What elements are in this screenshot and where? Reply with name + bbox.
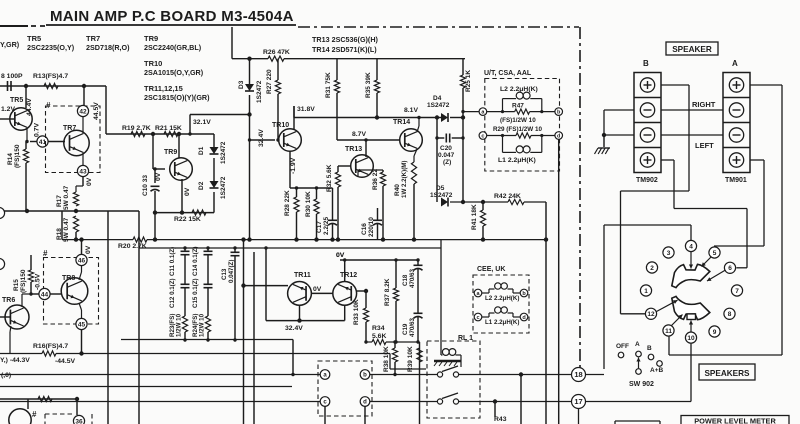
- svg-text:Y,GR): Y,GR): [0, 40, 20, 49]
- resistor R21: [164, 131, 178, 136]
- resistor R37: [393, 288, 398, 301]
- svg-text:R47: R47: [512, 103, 524, 110]
- top dash-dot board boundary: [298, 26, 579, 28]
- switch contact 1: [640, 285, 651, 296]
- label SPEAKER box: [666, 42, 718, 55]
- svg-text:R15: R15: [13, 279, 20, 291]
- svg-text:470/63: 470/63: [409, 269, 416, 288]
- second rail y248: [139, 247, 441, 249]
- relay contact 1: [437, 372, 442, 377]
- wire to D3: [249, 59, 251, 84]
- wire from rail to emitter line: [265, 248, 267, 321]
- pin 36 (cut): [73, 415, 84, 424]
- svg-text:SW 902: SW 902: [629, 381, 654, 388]
- wire below node c: [324, 406, 326, 424]
- svg-text:R19 2.7K: R19 2.7K: [122, 125, 151, 132]
- svg-text:R37 8.2K: R37 8.2K: [384, 278, 391, 306]
- wire A plus bottom to contact 5: [750, 159, 764, 161]
- svg-text:5W 0.47: 5W 0.47: [63, 217, 70, 242]
- transistor bottom (cut): [9, 409, 31, 424]
- wire D4/C20 left leg: [436, 118, 438, 203]
- svg-text:(FS)150: (FS)150: [14, 144, 21, 168]
- long wire vertical x243: [243, 240, 245, 424]
- svg-text:C14 0.1(Z): C14 0.1(Z): [192, 246, 199, 276]
- svg-text:RIGHT: RIGHT: [692, 100, 716, 109]
- svg-text:R25 1K: R25 1K: [465, 70, 472, 92]
- position dot A: [636, 351, 642, 357]
- capacitor C19: [414, 313, 423, 318]
- wire to pin 36: [76, 399, 78, 415]
- junction R19/R21 to TR9 base: [151, 132, 155, 136]
- resistor R18: [73, 216, 78, 232]
- svg-text:L1 2.2μH(K): L1 2.2μH(K): [485, 319, 519, 326]
- dashed box U/T CSA AAL: [485, 79, 560, 172]
- resistor R31: [334, 80, 339, 93]
- svg-text:45: 45: [78, 321, 86, 328]
- svg-text:R30 10K: R30 10K: [305, 191, 312, 217]
- wire TR13 base: [338, 165, 351, 167]
- svg-text:TR10: TR10: [272, 122, 289, 129]
- svg-text:A+B: A+B: [650, 367, 663, 374]
- svg-text:1/2W 10: 1/2W 10: [176, 313, 183, 337]
- wire coil to contact: [458, 354, 461, 356]
- diode D2: [210, 181, 219, 188]
- svg-text:R29 (FS)1/2W 10: R29 (FS)1/2W 10: [493, 126, 542, 133]
- svg-text:6: 6: [728, 265, 732, 272]
- resistor R40: [411, 162, 416, 184]
- wire LEFT channel: [661, 134, 723, 136]
- switch contact 7: [731, 285, 742, 296]
- wire contact 10 to pin 17: [690, 344, 692, 402]
- title underline and top border line: [0, 25, 28, 27]
- node b CEE: [520, 289, 528, 297]
- svg-text:D5: D5: [436, 185, 445, 192]
- resistor R38: [392, 348, 397, 362]
- wire TR9 base: [153, 168, 165, 170]
- junction TR11 base feed: [241, 283, 245, 287]
- svg-text:1S2472: 1S2472: [427, 102, 450, 109]
- pin 45: [76, 318, 87, 329]
- svg-text:32.4V: 32.4V: [285, 325, 303, 332]
- inductor L1 UT: [502, 136, 504, 153]
- wire C10 top: [154, 169, 156, 183]
- svg-text:0.047(Z): 0.047(Z): [228, 260, 235, 283]
- arrow contact 11 to rotor: [672, 315, 683, 326]
- wire rail corner down to bus: [61, 211, 63, 240]
- svg-text:CEE, UK: CEE, UK: [477, 266, 505, 273]
- resistor R28: [294, 197, 299, 212]
- svg-text:C16: C16: [361, 223, 368, 235]
- svg-text:8.7V: 8.7V: [352, 131, 366, 138]
- svg-text:C11 0.1(Z): C11 0.1(Z): [169, 247, 176, 276]
- wire corner to R17: [76, 185, 83, 187]
- wire C14 column: [207, 248, 209, 251]
- resistor R27: [275, 80, 280, 94]
- svg-text:R13(FS)4.7: R13(FS)4.7: [33, 73, 68, 80]
- capacitor C10: [151, 186, 160, 191]
- output line to R42: [450, 201, 508, 203]
- svg-text:0V: 0V: [86, 177, 93, 186]
- position dot OFF: [618, 352, 624, 358]
- wire corner y339 to y374: [292, 340, 294, 375]
- wire top rail left: [0, 85, 106, 87]
- wire R22 line: [155, 212, 214, 214]
- junction D3 line / 32.1V line: [247, 112, 251, 116]
- wire TR6 base from edge: [0, 316, 11, 318]
- left edge connector pin (cut): [0, 207, 5, 218]
- wire rail down to R19 line: [105, 86, 107, 134]
- node d lower: [360, 397, 370, 407]
- wire down to 0V bus: [154, 213, 156, 240]
- svg-text:2SD718(R,O): 2SD718(R,O): [86, 43, 130, 52]
- svg-text:c: c: [476, 315, 479, 321]
- svg-text:7: 7: [735, 288, 739, 295]
- wire pin 46 up to bus: [81, 240, 83, 255]
- wire R35 down: [376, 93, 378, 118]
- svg-text:32.1V: 32.1V: [193, 119, 211, 126]
- node a UT: [479, 108, 487, 116]
- svg-text:TR6: TR6: [2, 297, 15, 304]
- resistor R42: [508, 199, 524, 204]
- svg-text:C20: C20: [440, 145, 452, 152]
- wire output line to D4: [294, 117, 441, 119]
- svg-text:TR11,12,15: TR11,12,15: [144, 84, 183, 93]
- wire 0V line TR12: [340, 259, 418, 261]
- wire R18 to 0V bus: [75, 232, 77, 240]
- svg-text:(,0): (,0): [1, 372, 11, 379]
- svg-text:1.2V: 1.2V: [1, 106, 15, 113]
- switch contact 9: [709, 326, 720, 337]
- top mid rail: [232, 58, 268, 60]
- svg-text:R41 18K: R41 18K: [471, 204, 478, 230]
- transistor TR9: [170, 158, 193, 181]
- svg-text:SPEAKER: SPEAKER: [672, 45, 712, 54]
- wire TR14 emitter up: [417, 126, 419, 132]
- capacitor C13: [231, 252, 240, 255]
- switch rotor upper: [672, 264, 710, 287]
- svg-text:R35 39K: R35 39K: [365, 72, 372, 98]
- capacitor C11: [181, 251, 190, 254]
- relay core bar: [434, 360, 461, 362]
- node d CEE: [520, 313, 528, 321]
- wire TR12 collector out: [357, 290, 366, 292]
- wire bottom stage rail: [0, 398, 77, 400]
- svg-text:C15 0.1(Z): C15 0.1(Z): [192, 278, 199, 308]
- switch rotor lower: [672, 296, 710, 319]
- diode D4: [441, 113, 448, 122]
- svg-text:D3: D3: [238, 80, 245, 89]
- svg-text:SPEAKERS: SPEAKERS: [704, 369, 750, 378]
- transistor TR6: [5, 305, 29, 329]
- wire RIGHT channel: [661, 109, 723, 111]
- capacitor C8 (partial) plates: [7, 81, 9, 91]
- svg-text:C18: C18: [402, 274, 409, 286]
- label box bottom (partial): [615, 420, 660, 422]
- svg-text:C13: C13: [221, 268, 228, 280]
- svg-text:D1: D1: [198, 146, 205, 155]
- svg-text:32.4V: 32.4V: [258, 129, 265, 147]
- dashed box CEE UK: [473, 275, 529, 333]
- svg-text:-44.5V: -44.5V: [55, 358, 75, 365]
- wire B plus bottom to contact 6: [661, 159, 674, 161]
- wire TR5 base from edge: [0, 118, 15, 120]
- switch contact 11: [663, 325, 674, 336]
- svg-text:(FS)1/2W 10: (FS)1/2W 10: [500, 117, 536, 124]
- switch contact 6: [724, 262, 735, 273]
- wire TR10 base feed: [250, 139, 276, 141]
- svg-text:C12 0.1(Z): C12 0.1(Z): [169, 278, 176, 308]
- svg-text:TR14 2SD571(K)(L): TR14 2SD571(K)(L): [312, 45, 377, 54]
- svg-text:42: 42: [79, 108, 87, 115]
- wire to D1: [213, 134, 215, 147]
- switch contact 4: [685, 240, 696, 251]
- wire B plus top to contact 12: [661, 84, 689, 86]
- svg-text:R27 220: R27 220: [266, 69, 273, 94]
- svg-text:1W 2.2(K)(M): 1W 2.2(K)(M): [401, 161, 408, 198]
- wire TR9 emitter down: [181, 179, 183, 213]
- resistor R29: [516, 133, 531, 138]
- svg-text:-0.5V: -0.5V: [35, 273, 42, 290]
- svg-text:B: B: [647, 345, 652, 352]
- node c UT: [479, 132, 487, 140]
- svg-text:(FS)150: (FS)150: [20, 269, 27, 293]
- wire output to node a: [463, 111, 479, 113]
- svg-text:L2 2.2μH(K): L2 2.2μH(K): [485, 295, 519, 302]
- svg-text:TR10: TR10: [144, 59, 162, 68]
- svg-text:U/T, CSA, AAL: U/T, CSA, AAL: [484, 70, 532, 77]
- wire TR9 collector up: [178, 134, 180, 158]
- svg-text:(Z): (Z): [443, 159, 451, 166]
- resistor R30: [314, 199, 319, 214]
- svg-text:C10 33: C10 33: [142, 175, 149, 196]
- wire D2 to R22: [213, 192, 215, 213]
- wire pin 44 to TR8 base: [51, 293, 62, 295]
- arrow contact 12 to rotor: [657, 300, 678, 311]
- capacitor C18: [414, 265, 423, 270]
- svg-text:470/63: 470/63: [409, 318, 416, 337]
- node a CEE: [474, 289, 482, 297]
- svg-text:1S2472: 1S2472: [220, 176, 227, 199]
- wire TR7 collector to pin 42: [82, 117, 84, 133]
- position dot B: [648, 354, 654, 360]
- svg-text:b: b: [363, 373, 367, 379]
- switch contact 10: [685, 332, 696, 343]
- svg-text:B: B: [643, 59, 649, 68]
- wire pin 43 down: [82, 177, 84, 186]
- svg-text:OFF: OFF: [616, 343, 629, 350]
- wire D1-D2: [213, 158, 215, 181]
- svg-text:MAIN AMP P.C BOARD M3-4504A: MAIN AMP P.C BOARD M3-4504A: [50, 8, 294, 25]
- svg-text:31.8V: 31.8V: [297, 106, 315, 113]
- wire C13 column: [234, 248, 236, 252]
- svg-text:1S2472: 1S2472: [430, 192, 453, 199]
- transistor TR11: [288, 282, 312, 306]
- long wire output vertical x546: [545, 202, 547, 424]
- terminal block TM902 (B): [634, 73, 661, 173]
- diode D5: [441, 198, 448, 207]
- svg-text:0V: 0V: [336, 252, 345, 259]
- wire TR8 collector to pin 46: [79, 272, 82, 280]
- wire relay contact 2 to pin 17: [459, 401, 572, 403]
- rotor position dot: [636, 369, 642, 375]
- wire mid rail left: [0, 210, 139, 212]
- svg-text:1/2W 10: 1/2W 10: [199, 313, 206, 337]
- wire TR14 collector down: [414, 149, 417, 156]
- wire TR10 collector up: [293, 106, 295, 130]
- svg-text:TR5: TR5: [27, 34, 41, 43]
- resistor R25: [460, 75, 465, 88]
- junction top rail / pin 42 branch: [82, 84, 86, 88]
- wire TR9 base divider: [152, 134, 154, 169]
- wire TR11 base feed: [244, 285, 289, 287]
- svg-text:C17: C17: [316, 221, 323, 233]
- svg-text:TR9: TR9: [164, 149, 177, 156]
- resistor R41: [480, 210, 485, 226]
- svg-text:TR8: TR8: [62, 275, 75, 282]
- svg-text:8 100P: 8 100P: [1, 73, 23, 80]
- long wire vertical x419: [419, 342, 421, 424]
- svg-text:0.047: 0.047: [438, 152, 455, 159]
- svg-text:43: 43: [79, 168, 87, 175]
- wire R25 down: [462, 88, 464, 202]
- wire TR8 emitter to pin 45: [79, 303, 82, 310]
- wire TR5 collector up: [25, 86, 27, 108]
- resistor R47: [515, 109, 530, 114]
- svg-text:TR5: TR5: [10, 97, 23, 104]
- bus wire y401 (to relay and pin 17): [0, 401, 320, 403]
- svg-text:5W 0.47: 5W 0.47: [63, 185, 70, 210]
- wire 32.1V corner: [189, 115, 191, 135]
- 0V bus rail: [62, 239, 133, 241]
- switch contact 5: [709, 247, 720, 258]
- svg-text:R34: R34: [372, 325, 385, 332]
- svg-text:9: 9: [713, 329, 717, 336]
- svg-text:2SC1815(O)(Y)(GR): 2SC1815(O)(Y)(GR): [144, 93, 210, 102]
- svg-text:d: d: [363, 400, 367, 406]
- svg-text:D4: D4: [433, 95, 442, 102]
- junction ground: [602, 133, 606, 137]
- pin 44: [39, 288, 50, 299]
- wire emitter node: [290, 187, 333, 189]
- junction to R43: [519, 372, 523, 376]
- transistor TR7: [64, 130, 89, 155]
- arrow contact 5 to rotor: [702, 257, 712, 267]
- label SPEAKERS box: [699, 364, 755, 380]
- transistor TR13: [351, 155, 374, 178]
- wire bottom transistor collector: [27, 399, 29, 409]
- svg-text:R16(FS)4.7: R16(FS)4.7: [33, 343, 68, 350]
- wire A plus top to contact 11: [750, 84, 782, 86]
- svg-text:2SC2235(O,Y): 2SC2235(O,Y): [27, 43, 75, 52]
- pin 43: [77, 165, 88, 176]
- svg-text:2SA1015(O,Y,GR): 2SA1015(O,Y,GR): [144, 68, 204, 77]
- capacitor C17: [328, 220, 337, 225]
- transistor TR10: [279, 129, 302, 152]
- long wire vertical x139: [138, 211, 140, 424]
- resistor bottom stage: [38, 396, 52, 401]
- diode D1: [210, 147, 219, 154]
- svg-text:TR12: TR12: [340, 272, 357, 279]
- transistor TR14: [400, 129, 423, 152]
- svg-text:0V: 0V: [313, 286, 322, 293]
- bus wire y339: [121, 339, 293, 341]
- dashed box relay RL1: [427, 341, 480, 418]
- wire c to d row with resistor R29: [487, 135, 516, 137]
- wire B minus terminals to ground: [604, 109, 634, 111]
- resistor R24(FS): [205, 316, 210, 332]
- wire down from junction x495: [494, 402, 496, 418]
- wire R27 to TR10 base: [277, 94, 279, 140]
- transistor TR12: [333, 282, 357, 306]
- junction TR12 collector / R33: [364, 289, 368, 293]
- svg-text:R42 24K: R42 24K: [494, 193, 521, 200]
- long wire vertical x254: [253, 252, 255, 424]
- wire R19/R21 line: [106, 133, 214, 135]
- wire down from junction x521: [520, 375, 522, 424]
- svg-text:A: A: [732, 59, 738, 68]
- wire TR11 to TR12: [311, 292, 333, 294]
- pin 41: [37, 136, 48, 147]
- right dash-dot board boundary: [579, 27, 581, 369]
- switch rotor lower tab: [687, 314, 696, 320]
- arrow contact 4 to rotor: [689, 252, 693, 269]
- svg-text:2: 2: [650, 265, 654, 272]
- transistor TR5: [10, 108, 32, 130]
- wire pin 42 up to rail: [83, 86, 85, 105]
- label POWER LEVEL METER box: [681, 416, 789, 424]
- wire pin 18 right: [586, 374, 605, 376]
- pin 46: [76, 254, 87, 265]
- wire TR13 emitter to R36: [357, 170, 359, 176]
- negative supply rail -44.3V: [0, 353, 42, 355]
- resistor R22: [192, 210, 206, 215]
- svg-text:TR13 2SC536(G)(H): TR13 2SC536(G)(H): [312, 35, 379, 44]
- svg-text:TR7: TR7: [86, 34, 100, 43]
- svg-text:0V: 0V: [184, 187, 191, 196]
- svg-text:0.7V: 0.7V: [34, 123, 41, 137]
- wire TR6 emitter down: [10, 326, 11, 332]
- arrow switch position: [636, 358, 640, 369]
- pin 42: [77, 105, 88, 116]
- resistor R20: [133, 237, 147, 242]
- arrow contact 10 to rotor: [689, 321, 693, 333]
- svg-text:#: #: [43, 249, 48, 258]
- terminal block TM901 (A): [723, 73, 750, 173]
- dashed select box TR7: [46, 106, 101, 173]
- svg-text:1: 1: [644, 288, 648, 295]
- svg-text:2SC2240(GR,BL): 2SC2240(GR,BL): [144, 43, 202, 52]
- wire d to relay contact 2: [370, 401, 437, 403]
- svg-text:44: 44: [41, 291, 49, 298]
- inductor L2 CEE: [482, 292, 489, 294]
- svg-text:TR14: TR14: [393, 119, 410, 126]
- bus wire y374 (to relay and pin 18): [0, 374, 320, 376]
- svg-text:TM901: TM901: [725, 177, 747, 184]
- svg-text:17: 17: [574, 397, 582, 406]
- svg-text:L1 2.2μH(K): L1 2.2μH(K): [498, 157, 536, 164]
- switch contact 2: [646, 262, 657, 273]
- svg-text:R28 22K: R28 22K: [284, 190, 291, 216]
- capacitor C12: [181, 284, 190, 287]
- transistor TR8: [61, 278, 88, 305]
- svg-text:R39 10K: R39 10K: [407, 346, 414, 372]
- pin 18: [572, 368, 586, 382]
- node d UT: [555, 132, 563, 140]
- resistor R36: [380, 172, 385, 186]
- svg-text:4: 4: [689, 243, 693, 250]
- svg-text:11: 11: [665, 328, 672, 335]
- wire TR10 emitter down: [289, 151, 291, 189]
